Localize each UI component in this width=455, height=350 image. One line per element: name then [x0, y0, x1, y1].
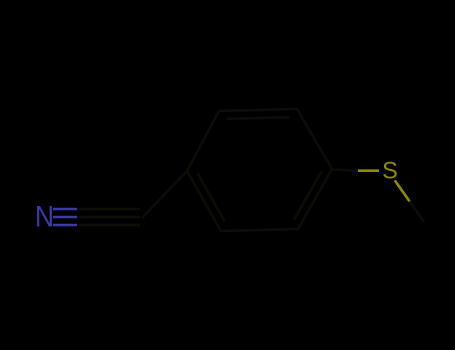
bond S to methyl : carbon half	[410, 201, 424, 222]
triple bond N#C : blue halves	[53, 209, 77, 225]
bond ring to S : sulfur half	[358, 169, 379, 172]
bond ring to S : carbon half	[332, 170, 358, 171]
sulfur label S	[382, 157, 398, 185]
bond S to methyl : sulfur half	[395, 180, 410, 201]
nitrogen label N	[35, 200, 54, 233]
wire nitrile C to ring	[142, 171, 187, 218]
benzene ring	[187, 109, 332, 231]
triple bond N#C : carbon halves	[77, 209, 140, 225]
svg-text:N: N	[35, 200, 54, 233]
